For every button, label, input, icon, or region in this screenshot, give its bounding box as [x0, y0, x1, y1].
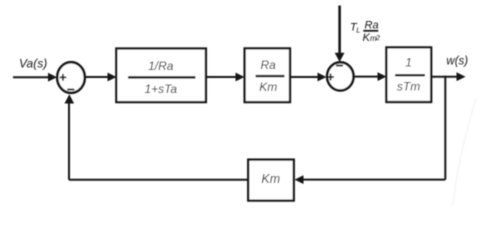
wire feedback branch down from output: [444, 76, 446, 180]
wire G3 to output w(s): [431, 76, 458, 78]
plus sign S1: [60, 74, 67, 81]
fraction bar of TL label: [363, 30, 378, 32]
wire feedback up into S1 minus input: [68, 103, 70, 180]
wire S1 to block G1: [85, 76, 109, 78]
svg-text:sTm: sTm: [397, 80, 420, 94]
wire feedback right segment into block H1: [302, 179, 445, 181]
svg-text:1: 1: [405, 56, 412, 70]
faint scan artifact curve bottom right: [453, 98, 476, 206]
svg-text:Km: Km: [259, 80, 277, 94]
wire S2 to block G3: [354, 76, 379, 78]
wire G1 to block G2: [206, 76, 237, 78]
svg-text:Ra: Ra: [261, 58, 277, 72]
wire G2 to summing junction S2: [290, 76, 319, 78]
minus sign S2: [336, 65, 343, 67]
svg-text:Va(s): Va(s): [19, 57, 47, 71]
plus sign S2: [327, 74, 334, 81]
svg-text:Km: Km: [261, 172, 280, 186]
svg-text:2: 2: [375, 33, 381, 42]
block G2 Ra over Km: [245, 48, 290, 102]
block G1 armature 1/Ra over 1+sTa: [116, 49, 206, 103]
wire feedback left segment from H1: [69, 179, 248, 181]
svg-text:1/Ra: 1/Ra: [148, 59, 174, 73]
wire disturbance TL input from top into S2: [338, 6, 341, 55]
minus sign S1: [67, 89, 74, 91]
block G3 mechanical 1 over sTm: [386, 47, 431, 102]
summing junction S2: [327, 62, 353, 90]
label TL Ra/Km2 disturbance: [350, 20, 381, 44]
svg-text:L: L: [356, 26, 360, 35]
block H1 feedback Km: [248, 160, 294, 201]
svg-text:w(s): w(s): [446, 56, 468, 68]
svg-text:1+sTa: 1+sTa: [145, 82, 178, 96]
wire input Va(s) to summing junction S1: [13, 76, 49, 78]
summing junction S1: [57, 62, 85, 93]
